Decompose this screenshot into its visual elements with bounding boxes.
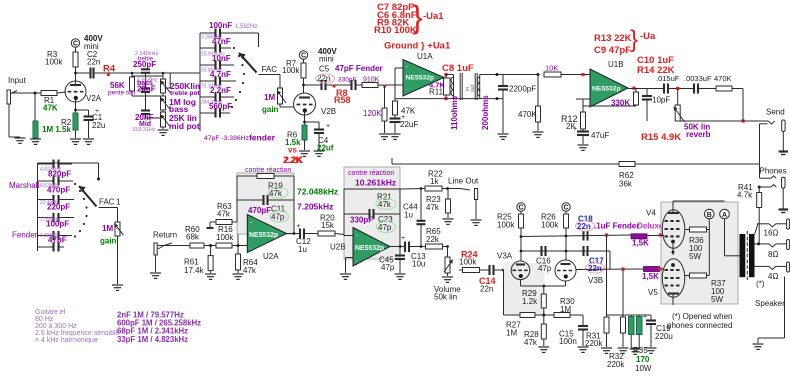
svg-text:2.2K: 2.2K: [283, 155, 303, 165]
svg-text:treble pot: treble pot: [170, 90, 200, 97]
svg-text:50k lin: 50k lin: [434, 293, 457, 302]
svg-text:47k: 47k: [426, 203, 440, 212]
svg-text:22k: 22k: [426, 235, 440, 244]
svg-text:pente ton: pente ton: [108, 90, 135, 97]
svg-text:R10 100K: R10 100K: [374, 25, 417, 36]
svg-text:reverb: reverb: [686, 130, 711, 139]
svg-text:47k: 47k: [378, 200, 392, 209]
svg-text:22uf: 22uf: [317, 144, 334, 153]
svg-text:10K: 10K: [545, 64, 558, 73]
svg-text:1M 1.5k: 1M 1.5k: [42, 125, 71, 134]
svg-text:C9 47pF: C9 47pF: [594, 45, 631, 56]
svg-text:FAC: FAC: [99, 198, 115, 207]
svg-text:2.5 kHz frequence sensible: 2.5 kHz frequence sensible: [35, 330, 120, 337]
svg-text:120K: 120K: [363, 109, 382, 118]
svg-text:Input: Input: [8, 76, 27, 85]
svg-text:Fender: Fender: [12, 231, 38, 240]
svg-text:fender: fender: [249, 133, 276, 143]
svg-text:V4: V4: [646, 209, 656, 218]
svg-text:1u: 1u: [298, 245, 307, 254]
svg-text:470pF: 470pF: [47, 186, 70, 195]
svg-text:R58: R58: [334, 95, 351, 105]
svg-text:330pF: 330pF: [350, 216, 373, 225]
svg-text:V3A: V3A: [497, 252, 513, 261]
svg-text:V3B: V3B: [588, 276, 603, 285]
svg-text:1M: 1M: [560, 305, 571, 314]
svg-text:47pF Fender: 47pF Fender: [335, 64, 383, 73]
svg-text:1,5K: 1,5K: [632, 239, 649, 248]
svg-text:+: +: [643, 314, 647, 321]
svg-text:4.7k: 4.7k: [737, 191, 753, 200]
svg-text:contre réaction: contre réaction: [348, 170, 394, 177]
svg-text:47p: 47p: [378, 223, 392, 232]
svg-text:2200pF: 2200pF: [509, 85, 536, 94]
svg-text:4Ω: 4Ω: [768, 272, 778, 281]
svg-text:R35: R35: [633, 346, 648, 355]
svg-text:}: }: [412, 0, 423, 35]
svg-text:47p: 47p: [381, 263, 395, 272]
svg-text:72.048kHz: 72.048kHz: [297, 187, 338, 197]
svg-text:80 Hz: 80 Hz: [35, 316, 54, 323]
svg-text:R11: R11: [429, 88, 444, 97]
svg-text:22u: 22u: [92, 121, 105, 130]
svg-text:phones connected: phones connected: [667, 321, 732, 330]
svg-text:Speaker: Speaker: [755, 299, 785, 308]
svg-text:470K: 470K: [518, 110, 537, 119]
svg-text:1M: 1M: [506, 329, 517, 338]
svg-text:R4: R4: [103, 64, 116, 75]
svg-text:820pF: 820pF: [48, 170, 71, 179]
svg-text:V5: V5: [648, 288, 658, 297]
svg-text:1k: 1k: [430, 177, 439, 186]
svg-text:68k: 68k: [186, 233, 200, 242]
svg-text:.015uF: .015uF: [656, 74, 680, 83]
svg-text:330pF: 330pF: [338, 77, 356, 84]
svg-text:47p: 47p: [538, 264, 552, 273]
svg-text:47k: 47k: [243, 266, 257, 275]
svg-text:220pF: 220pF: [47, 203, 70, 212]
svg-text:250pF: 250pF: [133, 60, 156, 69]
svg-text:U2A: U2A: [263, 252, 279, 261]
svg-text:1.2k: 1.2k: [522, 297, 538, 306]
svg-text:+: +: [401, 235, 405, 242]
svg-text:910K: 910K: [363, 77, 380, 84]
svg-text:22n: 22n: [588, 264, 602, 273]
svg-text:+: +: [573, 126, 577, 133]
svg-text:out: out: [470, 84, 476, 92]
svg-text:gain: gain: [100, 237, 117, 246]
svg-text:NE5532p: NE5532p: [249, 232, 278, 239]
svg-text:200ohms: 200ohms: [481, 95, 490, 130]
svg-text:47k: 47k: [524, 338, 538, 347]
svg-text:47k: 47k: [269, 189, 283, 198]
svg-text:100k: 100k: [541, 221, 559, 230]
svg-text:47K: 47K: [43, 104, 58, 113]
svg-text:220k: 220k: [585, 339, 603, 348]
svg-text:200 à 300 Hz: 200 à 300 Hz: [35, 323, 77, 330]
svg-text:100k: 100k: [282, 66, 300, 75]
svg-text:5W: 5W: [711, 295, 723, 304]
svg-text:20nF: 20nF: [137, 85, 156, 94]
svg-text:7.205kHz: 7.205kHz: [297, 202, 333, 212]
svg-text:1: 1: [116, 198, 121, 207]
svg-text:Phones: Phones: [760, 167, 787, 176]
svg-text:gain: gain: [262, 105, 279, 114]
svg-text:5W: 5W: [689, 252, 701, 261]
svg-text:100pF: 100pF: [46, 220, 69, 229]
svg-text:47p: 47p: [271, 213, 285, 222]
svg-text:Ground } +Ua1: Ground } +Ua1: [384, 41, 451, 52]
svg-text:10.261kHz: 10.261kHz: [355, 178, 396, 188]
svg-text:100k: 100k: [497, 221, 515, 230]
svg-text:C8 1uF: C8 1uF: [442, 63, 474, 74]
svg-text:47uF: 47uF: [591, 131, 609, 140]
svg-text:16Ω: 16Ω: [764, 229, 779, 238]
svg-text:NE5532p: NE5532p: [592, 86, 621, 93]
svg-text:.0033uF: .0033uF: [684, 74, 712, 83]
svg-text:Deluxe: Deluxe: [637, 222, 664, 231]
svg-text:100k: 100k: [459, 258, 477, 267]
svg-text:mini: mini: [319, 55, 334, 64]
svg-text:8Ω: 8Ω: [768, 250, 778, 259]
svg-text:Line Out: Line Out: [448, 177, 479, 186]
svg-text:220k: 220k: [607, 360, 625, 369]
svg-text:33pF 1M / 4.823kHz: 33pF 1M / 4.823kHz: [117, 335, 188, 344]
svg-text:1M: 1M: [102, 224, 113, 233]
svg-text:Marshall: Marshall: [9, 181, 39, 190]
svg-text:100n: 100n: [559, 337, 577, 346]
svg-text:mid pot: mid pot: [169, 121, 200, 131]
svg-text:1u: 1u: [404, 211, 413, 220]
svg-text:R15 4.9K: R15 4.9K: [641, 132, 681, 143]
svg-text:470pF: 470pF: [248, 206, 271, 215]
svg-text:U1A: U1A: [417, 52, 433, 61]
svg-text:V2A: V2A: [86, 94, 102, 103]
svg-text:}: }: [630, 26, 638, 53]
svg-text:(*): (*): [756, 280, 765, 289]
svg-text:R13 22K: R13 22K: [594, 33, 632, 44]
svg-text:.1uF Fender: .1uF Fender: [594, 222, 639, 231]
svg-text:U1B: U1B: [608, 60, 624, 69]
svg-text:1M: 1M: [264, 93, 275, 102]
svg-text:470K: 470K: [714, 74, 732, 83]
svg-text:1,5K: 1,5K: [642, 272, 659, 281]
svg-text:Guitare el: Guitare el: [35, 309, 66, 316]
svg-text:36k: 36k: [619, 180, 633, 189]
svg-text:15k: 15k: [321, 221, 335, 230]
svg-text:+: +: [326, 123, 330, 130]
svg-text:22uF: 22uF: [400, 120, 418, 129]
svg-text:220u: 220u: [655, 332, 673, 341]
svg-text:47pF -3.386Hz -: 47pF -3.386Hz -: [204, 135, 253, 142]
svg-text:22n: 22n: [480, 285, 493, 294]
svg-text:vs: vs: [288, 146, 297, 155]
svg-text:-Ua: -Ua: [640, 31, 656, 42]
svg-text:17.4k: 17.4k: [184, 266, 205, 275]
svg-text:47k: 47k: [217, 210, 231, 219]
svg-text:22n: 22n: [577, 222, 591, 231]
svg-text:V2B: V2B: [321, 107, 336, 116]
svg-text:NE5532p: NE5532p: [355, 245, 384, 252]
svg-text:Send: Send: [766, 108, 785, 117]
svg-text:> 4 kHz harmonique: > 4 kHz harmonique: [35, 337, 98, 344]
svg-text:10pF: 10pF: [652, 96, 670, 105]
svg-text:100k: 100k: [216, 233, 234, 242]
svg-text:Return: Return: [153, 231, 177, 240]
svg-text:318.31Hz: 318.31Hz: [132, 127, 156, 133]
svg-text:FAC: FAC: [262, 65, 278, 74]
svg-text:C5: C5: [319, 65, 330, 74]
svg-text:47pF: 47pF: [48, 236, 67, 245]
svg-text:10W: 10W: [635, 364, 652, 373]
svg-text:U2B: U2B: [330, 243, 346, 252]
svg-text:A: A: [722, 212, 727, 219]
svg-text:170: 170: [636, 355, 650, 364]
svg-text:(*) Opened when: (*) Opened when: [672, 312, 732, 321]
svg-text:10u: 10u: [412, 260, 425, 269]
svg-text:110ohms: 110ohms: [450, 95, 459, 130]
svg-text:22n: 22n: [87, 58, 100, 67]
svg-text:-Ua1: -Ua1: [423, 11, 444, 22]
svg-text:1.592Hz: 1.592Hz: [235, 24, 257, 30]
svg-text:100k: 100k: [45, 58, 63, 67]
svg-text:+: +: [297, 223, 301, 230]
svg-text:contre réaction: contre réaction: [245, 167, 291, 174]
svg-text:B: B: [707, 212, 712, 219]
svg-text:330K: 330K: [611, 99, 630, 108]
